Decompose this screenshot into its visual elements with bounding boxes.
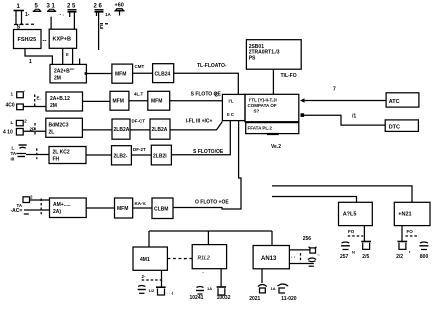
box AM preamp row5 [50,198,87,218]
svg-text:'': '' [318,253,320,258]
svg-text:2LB2A: 2LB2A [114,127,130,133]
box AM amplifier [50,64,86,83]
svg-text:2M: 2M [50,103,57,109]
wire 4M1 to cap [161,270,163,287]
svg-text:MFM: MFM [151,99,162,105]
box R/L [192,245,226,269]
svg-text:800: 800 [420,254,429,260]
wire KXP pin a to AM box [62,48,64,64]
svg-text:1A: 1A [207,286,212,291]
dashed net 2P1 row3 [30,123,36,136]
wire R/L to cap [220,269,222,287]
svg-text:2LB2A: 2LB2A [152,127,168,133]
capacitor C2 "2-6" [95,10,104,50]
svg-text:2A2+B'''': 2A2+B'''' [54,69,74,75]
dashed FO label under +N21 [405,229,419,236]
connector P5 row5 [23,197,30,203]
wire bus to R/L box [207,231,209,245]
svg-text:KXP+B: KXP+B [53,37,72,43]
wire FSH to AM box [25,49,52,65]
wire P5 to preamp row5 [30,199,50,201]
svg-text:2 5: 2 5 [67,4,76,10]
svg-text:S?: S? [254,109,260,114]
svg-text:-AC=: -AC= [11,208,23,214]
svg-text:2A+B.12: 2A+B.12 [50,96,70,102]
svg-text:FO: FO [348,229,355,234]
capacitor C14 under AN13 (arc+square) [258,285,267,293]
stub pin into AM box [79,58,81,64]
svg-text:1A: 1A [271,286,276,291]
svg-text:DF-2T: DF-2T [133,147,146,152]
wire bus to 4M1 [148,231,150,247]
svg-text:AN13: AN13 [261,256,277,262]
dashed wire 4M1 to R/L [167,258,192,260]
capacitor C12 under R/L (plate style) [196,287,204,295]
box U10 CLBM row5 [152,198,173,219]
net label E dashed near C2 stub [100,24,110,31]
svg-text:FSH/25: FSH/25 [18,37,37,43]
svg-text:KA-V.: KA-V. [135,201,147,206]
svg-text:MFM: MFM [113,99,124,105]
svg-text:2LB2I: 2LB2I [153,154,167,160]
svg-text:I'TL (Y)-II-T.JI: I'TL (Y)-II-T.JI [249,98,277,103]
dashed FO label under A7L5 [348,229,364,236]
wire bus to A7L5 [272,197,357,203]
svg-text:3 1: 3 1 [47,4,56,10]
box 4M1 [133,247,167,270]
wire 2SB01 to servo IC [272,69,274,94]
capacitor CX2 row4 [16,154,26,157]
wire preamp5 to MFM row5 [86,207,114,209]
svg-text:/1: /1 [352,114,356,120]
wire bus to AN13 [271,231,273,246]
svg-text:1-: 1- [25,12,30,18]
svg-text:COMPATA OF: COMPATA OF [248,103,277,108]
box U4 MFM2 row2 [148,91,170,110]
capacitor C13 under R/L (cup style) [217,287,226,295]
trimmer RV1 [309,247,317,253]
capacitor C17 under A7L5 (plate style) [341,242,350,250]
wire MFM1 to CLB2A [133,72,153,74]
box U5 2LB2A row3 [112,119,130,139]
svg-text:I-FL III +IC+: I-FL III +IC+ [186,119,213,125]
box preamp row4 [49,147,86,164]
svg-text:- .: - . [60,12,65,18]
svg-text:2A): 2A) [53,209,61,215]
svg-text:DTC: DTC [389,125,400,131]
svg-text:2LB2-: 2LB2- [114,154,128,160]
svg-text:2/5: 2/5 [362,254,369,260]
svg-text:C: C [215,93,219,99]
svg-text:PS: PS [249,56,256,62]
wire 2LB2A to 2LB2A row3 [130,129,150,131]
svg-text:TL-FLOATO-: TL-FLOATO- [197,63,227,69]
svg-text:MFM: MFM [117,206,128,212]
svg-text:R1L2: R1L2 [198,256,210,262]
svg-text:2021: 2021 [249,296,260,302]
svg-text:2-: 2- [142,274,147,279]
svg-text:I'L: I'L [229,99,234,104]
box U12b data latch [246,123,299,134]
wire AM to MFM1 with junction dot [85,72,112,75]
capacitor C15 under AN13 (arc+bracket) [278,284,289,293]
box KXP+B [49,29,76,48]
svg-text:--: -- [43,39,47,45]
box U11 decoder small [222,94,245,120]
svg-text:Ve.2: Ve.2 [271,144,281,150]
connector P2b row2 [17,104,24,110]
capacitor C18 under A7L5 (cup style) [361,242,371,250]
box ATC [386,93,419,107]
capacitor C1 "2-5" [68,10,77,30]
box FSH/25 [14,30,42,49]
svg-text:II: II [66,52,69,57]
svg-text:FH: FH [53,157,60,163]
svg-text:II C: II C [227,112,235,117]
svg-text:2L: 2L [49,130,55,136]
wire preamp2 to MFM row2 [83,100,111,102]
svg-text:2/2: 2/2 [396,254,403,260]
dashed net row5 [40,199,42,215]
wire AC to preamp row5 [24,209,50,211]
svg-text:4C0: 4C0 [6,103,15,109]
svg-text:4L.T: 4L.T [134,92,144,97]
box 2SB01 regulator [246,40,301,69]
wire AN13 to trimmer [289,249,309,251]
box U8 2LB2I row4 [151,145,171,165]
box preamp row3 [46,118,83,137]
connector J4 "+B" [115,9,125,16]
svg-text:4M1: 4M1 [140,257,150,263]
dashed label 2- under 4M1 [142,274,163,280]
svg-text:O FLOTO +OE: O FLOTO +OE [195,200,229,206]
capacitor C11 under 4M1 (cup style) [156,287,166,295]
svg-text:': ' [24,90,25,95]
wire +N21 to cap [401,226,403,242]
box DTC [385,120,418,131]
bar under AC row5 [24,213,29,215]
svg-text:2M: 2M [54,76,61,82]
wire J3 to KXP box [50,17,52,30]
svg-text:10241: 10241 [190,295,204,301]
capacitor C16 ellipse right of AN13 [308,258,316,262]
svg-text:2L KC2: 2L KC2 [53,150,70,156]
svg-text:2 6: 2 6 [94,4,103,10]
wire CLB2A to decoder small box [174,73,239,94]
wire P3b to preamp row3 [23,130,46,132]
bus bottom rail [149,230,272,232]
box U9 MFM row5 [115,198,133,218]
svg-text:III: III [11,157,15,162]
box U2 CLB2A row1 [153,64,174,83]
box AN13 [253,246,289,269]
svg-text:257: 257 [340,254,349,260]
capacitor C10 under 4M1 (plate style) [138,286,146,294]
wire AN13 to cap [261,269,263,283]
svg-text:BdM2C3: BdM2C3 [49,123,69,129]
wire 2LB2 to 2LB2I row4 [131,154,151,156]
box +N21 [394,202,430,225]
net label S dashed above FSH box [17,24,35,30]
svg-text:256: 256 [303,236,312,242]
svg-text:7: 7 [333,87,336,93]
svg-text:1/2: 1/2 [149,288,155,293]
svg-text:CMT: CMT [135,64,145,69]
wire KXP pin b to AM box [72,48,74,64]
wire servo to DTC with square dot [301,113,386,125]
dashed stub right of AN13 [300,253,302,262]
capacitor C20 under +N21 (plate style) [419,242,428,250]
svg-text:AM+.....: AM+..... [53,202,71,208]
wire 2LB2A2 to decoder row3 with diagonal [170,122,222,130]
svg-text:N: N [352,250,355,255]
wire bus to +N21 [272,186,412,202]
dashed net E row2 [35,95,41,107]
svg-text:TIL-FO: TIL-FO [281,73,297,79]
box U1 MFM row1 [112,64,133,83]
svg-text:FFATA PL.2: FFATA PL.2 [248,126,273,131]
box U3 MFM row2 [110,91,129,110]
capacitor CX1 row4 [19,145,27,148]
svg-text:1: 1 [29,59,32,65]
svg-text:': ' [203,271,204,276]
svg-text:DF-CT: DF-CT [132,119,146,124]
svg-text:11-020: 11-020 [281,296,297,302]
svg-text:FO: FO [407,229,414,234]
box A7L5 [339,202,373,225]
svg-text:CLBM: CLBM [154,207,168,213]
svg-text:ATC: ATC [389,99,400,105]
svg-text:. .: . . [291,254,296,260]
svg-text:1A: 1A [105,12,112,17]
connector J1 top-left [14,11,25,25]
capacitor C19 under +N21 (cup style) [398,242,408,250]
wire servo to ATC with arrow [300,98,386,102]
box U6 2LB2A2 row3 [150,119,170,139]
box U12 servo controller [245,94,299,121]
svg-text:L: L [11,120,14,125]
svg-text:+N21: +N21 [398,212,411,218]
box U7 2LB2 row4 [112,146,132,165]
dashed net row4 [36,148,38,159]
wire CLBM to decoder row5 [173,121,241,209]
svg-text:4 10: 4 10 [3,130,13,136]
connector J3 "3-1" [47,9,56,11]
wire MFM to CLBM row5 [133,207,152,209]
svg-text:E.: E. [37,96,41,101]
wire preamp3 to 2LB2A row3 [82,129,112,131]
svg-text:MFM: MFM [115,72,126,78]
wire P2b to preamp row2 [23,106,46,108]
svg-text:+60: +60 [115,3,124,9]
wire MFM2 to decoder row2 [170,100,223,102]
wire AN13 lower stub [289,264,313,267]
wire MFM to MFM row2 [129,100,148,102]
wire A7L5 to cap [363,226,365,242]
wire preamp4 to 2LB2 row4 [86,154,112,156]
svg-text:TA: TA [11,151,17,156]
svg-text:CLB24: CLB24 [155,72,171,78]
svg-text:. . .|: . . .| [167,290,174,295]
svg-text:L: L [12,146,15,151]
box preamp row2 [46,92,83,111]
wire 2LB2I to decoder row4 [171,121,230,155]
svg-text:A?L5: A?L5 [343,212,357,218]
connector P2a row2 [17,92,24,98]
svg-text:S FLOTO/OE: S FLOTO/OE [193,149,224,155]
connector P3a row3 [16,120,23,125]
connector P3b row3 [16,129,23,136]
wire caps to preamp row4 [26,154,49,156]
connector J2 "5" [33,9,42,11]
svg-text:10032: 10032 [217,295,231,301]
